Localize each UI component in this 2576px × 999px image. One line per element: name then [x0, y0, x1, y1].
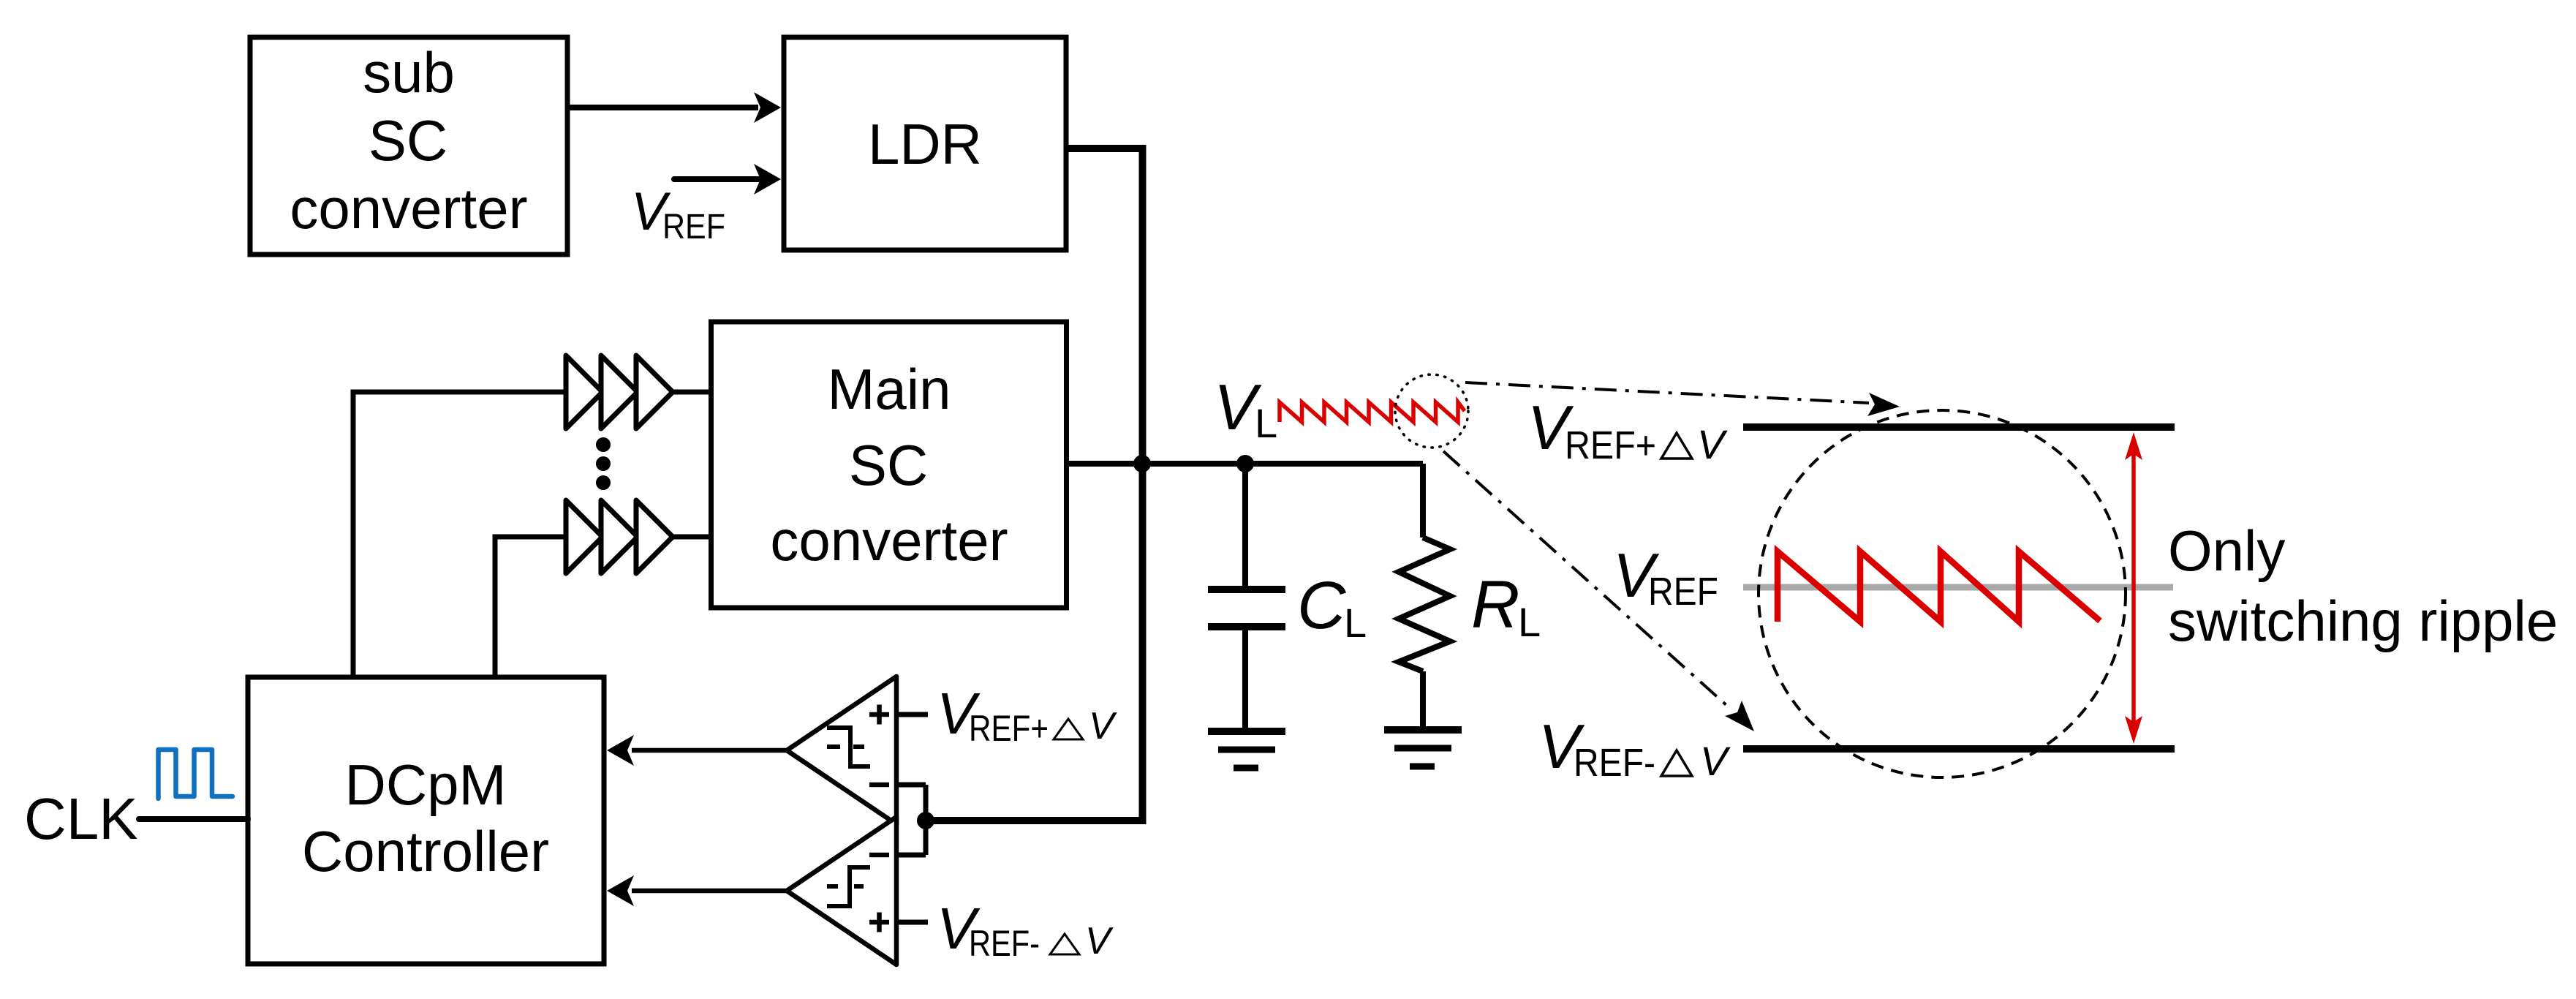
- resistor RL branch top wire: [1420, 464, 1426, 538]
- ripple sawtooth at VL (red): [1280, 402, 1465, 422]
- wire sub to LDR with arrowhead: [567, 92, 781, 123]
- junction dot comparator minus node: [917, 812, 934, 829]
- resistor RL zigzag: [1399, 538, 1450, 671]
- wire U2 minus input: [896, 853, 926, 858]
- buffer B2: [601, 355, 638, 429]
- right panel: lower threshold line: [1743, 745, 2175, 753]
- dotted zoom circle at VL ripple: [1395, 374, 1468, 448]
- svg-text:REF-: REF-: [969, 923, 1040, 964]
- label VL: [1214, 371, 1277, 446]
- label RL: [1471, 568, 1541, 645]
- svg-text:V: V: [1085, 920, 1114, 962]
- ground for CL: [1208, 731, 1285, 768]
- svg-text:SC: SC: [849, 433, 928, 497]
- buffer B3: [636, 355, 673, 429]
- svg-text:CLK: CLK: [24, 786, 138, 851]
- svg-text:DCpM: DCpM: [344, 753, 506, 817]
- block Main SC converter: [711, 322, 1067, 608]
- right panel label VREF+dV: [1527, 393, 1728, 467]
- buffer B1: [566, 355, 603, 429]
- buffer B6: [636, 500, 673, 573]
- comparator U2 (lower, hysteresis): [787, 817, 896, 965]
- svg-text:SC: SC: [369, 108, 447, 173]
- wire B6 to Main box: [673, 535, 711, 540]
- comparator U1 (upper, hysteresis): [787, 676, 896, 824]
- clock waveform (blue): [159, 750, 233, 799]
- wire U1 output arrow into DCpM: [607, 735, 787, 766]
- wire U2 plus input: [896, 920, 928, 925]
- capacitor CL plates: [1208, 589, 1285, 627]
- buffer B5: [601, 500, 638, 573]
- svg-text:V: V: [1089, 705, 1117, 747]
- svg-text:R: R: [1471, 568, 1519, 642]
- svg-text:Controller: Controller: [302, 819, 549, 883]
- capacitor CL branch wire top: [1242, 464, 1248, 589]
- right panel: upper threshold line: [1743, 423, 2175, 431]
- svg-text:L: L: [1518, 599, 1541, 645]
- svg-text:V: V: [1700, 738, 1731, 784]
- wire LDR output feedback (right, down, to comparator minus node): [926, 148, 1143, 821]
- svg-text:L: L: [1255, 400, 1277, 446]
- svg-text:REF: REF: [662, 208, 725, 246]
- wire top buffer row feed: [353, 392, 566, 677]
- callout dash-dot arrow lower: [1443, 451, 1754, 731]
- block sub SC converter: [250, 37, 567, 255]
- right panel: ripple span red double arrow: [2125, 432, 2142, 744]
- junction dot CL branch: [1236, 455, 1254, 472]
- svg-text:L: L: [1344, 600, 1367, 646]
- callout dash-dot arrow upper: [1465, 382, 1900, 416]
- svg-text:REF+: REF+: [1565, 423, 1656, 467]
- svg-text:C: C: [1297, 568, 1346, 643]
- resistor RL bottom wire: [1420, 671, 1426, 730]
- svg-text:REF: REF: [1648, 570, 1718, 614]
- wire CLK into DCpM: [139, 816, 248, 822]
- ellipsis dots between buffer rows: [596, 437, 611, 490]
- label VREF input: [631, 182, 725, 246]
- svg-text:switching ripple: switching ripple: [2168, 589, 2558, 653]
- label VREF-dV (comparator U2): [937, 896, 1114, 964]
- block DCpM Controller: [248, 677, 604, 964]
- svg-text:REF-: REF-: [1574, 741, 1655, 785]
- wire bottom buffer row feed: [495, 537, 566, 677]
- wire B3 to Main box: [673, 390, 711, 395]
- arrow VREF into LDR: [674, 164, 781, 195]
- label CL: [1297, 568, 1367, 646]
- block LDR: [784, 37, 1066, 250]
- svg-text:Only: Only: [2168, 519, 2285, 583]
- label VREF+dV (comparator U1): [937, 681, 1117, 749]
- svg-text:sub: sub: [363, 40, 455, 105]
- right panel: VREF gray line: [1743, 584, 2173, 591]
- wire U1 minus input: [896, 783, 926, 788]
- svg-text:V: V: [1697, 421, 1728, 467]
- buffer B4: [566, 500, 603, 573]
- wire U1 plus input: [896, 712, 928, 717]
- wire minus inputs connector: [923, 785, 929, 855]
- capacitor CL bottom wire: [1242, 627, 1248, 731]
- svg-text:LDR: LDR: [868, 112, 982, 176]
- junction node dot at VL/feedback: [1133, 455, 1151, 472]
- svg-text:converter: converter: [770, 508, 1008, 573]
- wire U2 output arrow into DCpM: [607, 875, 787, 906]
- right panel label VREF-dV: [1538, 712, 1731, 785]
- svg-text:REF+: REF+: [969, 708, 1049, 749]
- svg-text:Main: Main: [827, 357, 951, 421]
- wire VL node horizontal: [1066, 461, 1423, 467]
- right panel label VREF: [1613, 541, 1718, 614]
- svg-text:converter: converter: [290, 176, 527, 241]
- label CLK: [24, 786, 138, 851]
- right panel: sawtooth ripple (red): [1778, 551, 2100, 622]
- ground for RL: [1384, 730, 1462, 766]
- note text Only switching ripple: [2168, 519, 2558, 653]
- right panel: dashed zoom circle: [1759, 410, 2126, 777]
